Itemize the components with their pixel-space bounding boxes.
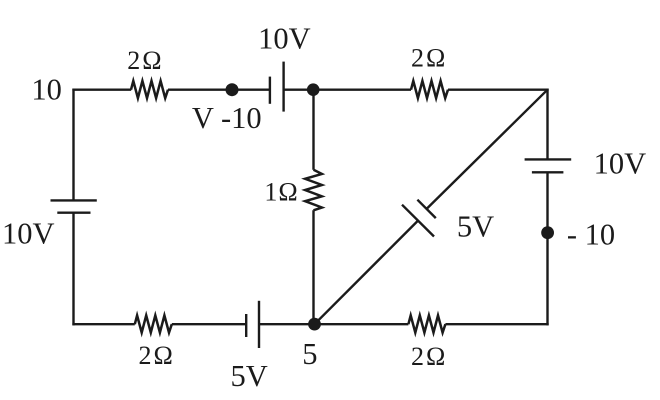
svg-text:1Ω: 1Ω [264,178,298,207]
svg-text:2Ω: 2Ω [411,342,447,371]
svg-text:10V: 10V [2,217,55,251]
svg-text:5: 5 [302,337,317,371]
svg-text:10V: 10V [258,22,311,56]
svg-text:V -10: V -10 [192,101,262,135]
svg-text:- 10: - 10 [567,218,615,252]
svg-text:5V: 5V [457,209,494,243]
svg-text:5V: 5V [231,359,268,393]
svg-text:10: 10 [31,73,62,107]
svg-text:2Ω: 2Ω [411,44,447,73]
svg-text:2Ω: 2Ω [139,341,175,370]
svg-text:10V: 10V [594,147,647,181]
svg-text:2Ω: 2Ω [127,46,163,75]
